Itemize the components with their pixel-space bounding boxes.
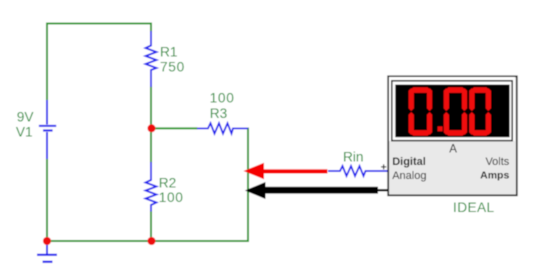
node bottom-mid junction	[148, 237, 156, 245]
wire left lower	[46, 158, 48, 241]
svg-text:Digital: Digital	[392, 156, 426, 168]
resistor R3	[197, 123, 248, 133]
wire bottom	[47, 240, 249, 242]
svg-text:V1: V1	[16, 124, 33, 139]
svg-text:R1: R1	[160, 44, 178, 59]
battery V1	[39, 100, 56, 159]
multimeter display bezel	[389, 77, 515, 141]
node ground-left junction	[43, 237, 51, 245]
black probe arrow	[245, 182, 378, 199]
svg-text:100: 100	[210, 90, 235, 105]
svg-text:R2: R2	[159, 175, 177, 190]
digit 0 (second)	[444, 87, 467, 135]
svg-text:Amps: Amps	[480, 170, 509, 182]
resistor Rin	[328, 166, 388, 176]
svg-text:R3: R3	[210, 106, 228, 121]
ground	[37, 241, 57, 262]
wire node to R2	[150, 128, 152, 163]
resistor R1	[146, 31, 157, 87]
svg-text:Rin: Rin	[343, 150, 364, 165]
decimal point	[438, 126, 443, 131]
svg-text:Analog: Analog	[392, 170, 426, 182]
svg-text:750: 750	[160, 59, 185, 74]
svg-text:Volts: Volts	[485, 156, 509, 168]
svg-text:9V: 9V	[17, 110, 35, 125]
svg-text:+: +	[381, 162, 387, 173]
digit 0 (first)	[409, 87, 433, 135]
digit 0 (third)	[469, 87, 491, 135]
wire right vertical	[247, 128, 249, 243]
wire R1 to node	[150, 86, 152, 128]
wire R1 branch upper	[150, 23, 152, 33]
multimeter body	[388, 76, 517, 195]
svg-text:IDEAL: IDEAL	[453, 200, 495, 215]
wire node to R3	[151, 127, 198, 129]
svg-text:100: 100	[159, 190, 184, 205]
multimeter display inner frame	[392, 81, 512, 141]
wire black to meter	[376, 189, 388, 191]
multimeter screen	[395, 85, 509, 138]
wire top	[46, 23, 152, 25]
resistor R2	[146, 162, 157, 212]
wire R2 to bottom node	[150, 211, 152, 242]
wire left upper	[46, 23, 48, 102]
red probe arrow	[244, 163, 328, 179]
svg-text:A: A	[449, 144, 457, 156]
node A (mid junction)	[148, 124, 156, 132]
